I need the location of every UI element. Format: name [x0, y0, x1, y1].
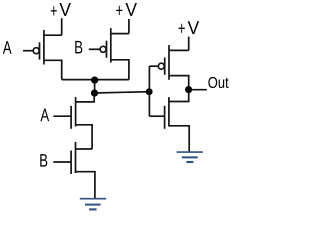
wire input A to Q3 gate [53, 115, 71, 117]
node input B label (NMOS) [40, 154, 47, 167]
node junction dot 2 [91, 90, 98, 97]
node +V supply label 1 [51, 3, 71, 16]
node +V supply label 2 [116, 3, 137, 16]
node +V supply label 3 [179, 21, 200, 34]
wire inverter input vertical [148, 66, 150, 116]
transistor Q2 PMOS input B [100, 28, 129, 80]
ground symbol 2 (inverter) [177, 152, 203, 162]
node junction dot 3 [146, 88, 153, 95]
transistor Q3 NMOS input A [71, 93, 94, 149]
wire input B to Q2 gate [89, 48, 100, 50]
wire dot1 to dot2 [94, 80, 96, 93]
transistor Q1 PMOS input A [33, 30, 62, 80]
node junction dot 1 [91, 77, 98, 84]
transistor Q5 PMOS inverter [149, 45, 188, 90]
node junction dot 4 output [185, 86, 192, 93]
node input B label (PMOS) [75, 41, 82, 54]
transistor Q4 NMOS input B [71, 142, 95, 198]
transistor Q6 NMOS inverter [149, 90, 189, 152]
ground symbol 1 (NAND pull-down) [80, 199, 106, 210]
wire +V3 to Q5 source [188, 37, 190, 51]
node input A label (NMOS) [40, 109, 49, 122]
wire output [189, 89, 207, 91]
node input A label (PMOS) [3, 41, 12, 54]
wire input A to Q1 gate [23, 50, 33, 52]
wire +V2 to Q2 source [128, 19, 130, 34]
node Out label [208, 77, 228, 88]
wire NAND output bus to inverter input [95, 92, 150, 93]
wire +V1 to Q1 source [61, 18, 63, 35]
wire bus PMOS drains [62, 79, 129, 81]
wire input B to Q4 gate [53, 161, 71, 163]
